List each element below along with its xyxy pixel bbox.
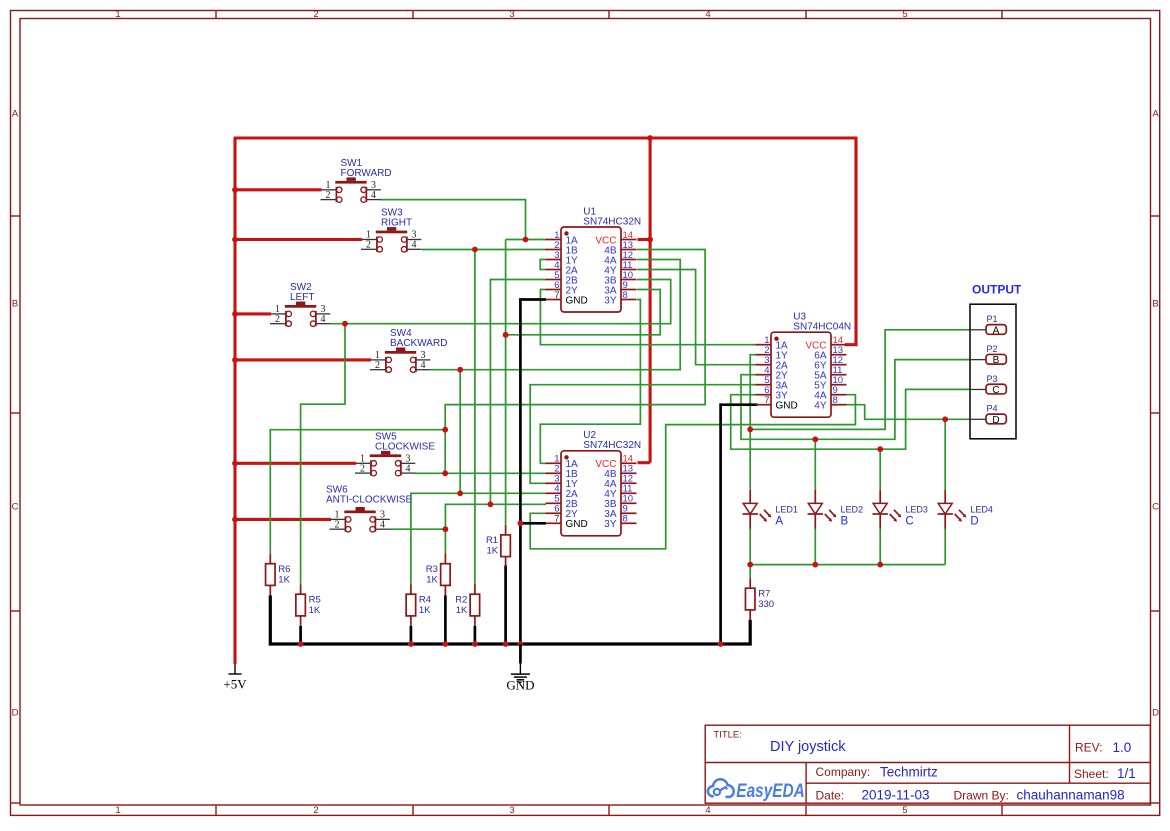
svg-text:Sheet:: Sheet: <box>1074 767 1109 781</box>
svg-text:Date:: Date: <box>816 788 845 802</box>
svg-text:chauhannaman98: chauhannaman98 <box>1017 788 1125 803</box>
resistor R6 1K <box>266 554 291 596</box>
svg-text:4: 4 <box>380 519 385 530</box>
svg-text:OUTPUT: OUTPUT <box>972 283 1022 297</box>
wire net SW1 vertical to R1 and 3A <box>505 240 507 525</box>
svg-text:7: 7 <box>554 514 559 525</box>
connector box <box>970 304 1016 439</box>
svg-text:REV:: REV: <box>1075 741 1103 755</box>
wire SW3 net down to R2 <box>474 250 476 585</box>
EasyEDA logo <box>708 779 805 802</box>
svg-text:Drawn By:: Drawn By: <box>954 788 1009 802</box>
svg-text:R1: R1 <box>486 535 498 546</box>
svg-text:LED1: LED1 <box>775 504 798 514</box>
svg-text:P1: P1 <box>987 314 998 324</box>
svg-text:8: 8 <box>623 290 628 301</box>
connector pin P2 B <box>970 344 1006 366</box>
svg-text:1: 1 <box>115 9 120 20</box>
wire R3 bottom <box>444 595 447 644</box>
wire U2 GND stub <box>520 522 546 525</box>
switch SW4 BACKWARD <box>370 328 447 372</box>
svg-text:D: D <box>1152 708 1159 719</box>
svg-text:2: 2 <box>366 240 371 251</box>
svg-text:2: 2 <box>313 805 318 816</box>
resistor R2 1K <box>455 584 479 626</box>
svg-text:A: A <box>1152 109 1159 120</box>
svg-text:1K: 1K <box>426 575 438 586</box>
wire +5V to SW3 pin1 <box>235 238 362 241</box>
svg-text:1K: 1K <box>456 605 468 616</box>
wire SW5 output to U2 pin2 <box>415 472 546 474</box>
wire net A : U3 1Y to LED1 and P1 <box>750 355 757 490</box>
svg-text:B: B <box>993 355 1000 366</box>
wire U1 3A pickup <box>506 290 661 335</box>
svg-text:C: C <box>12 502 19 513</box>
wire +5V vertical rail <box>233 138 236 664</box>
wire net B : U3 2Y to LED2 and P2 <box>741 360 970 440</box>
resistor R5 1K <box>296 584 321 626</box>
svg-text:CLOCKWISE: CLOCKWISE <box>375 441 435 452</box>
wire U1 4B to SW5 net <box>445 250 705 474</box>
svg-text:A: A <box>993 325 1000 336</box>
wire +5V to SW5 pin1 <box>235 462 356 465</box>
switch SW6 ANTI-CLOCKWISE <box>326 484 412 532</box>
svg-text:LED4: LED4 <box>970 504 993 514</box>
svg-text:P4: P4 <box>987 404 998 414</box>
svg-text:8: 8 <box>623 514 628 525</box>
svg-text:2: 2 <box>313 9 318 20</box>
svg-text:FORWARD: FORWARD <box>341 168 392 179</box>
svg-text:+5V: +5V <box>223 676 247 691</box>
svg-text:Company:: Company: <box>816 765 871 779</box>
wire SW1 output to U1 pin line <box>380 200 525 240</box>
IC U1 SN74HC32N <box>546 206 642 312</box>
svg-text:R7: R7 <box>758 589 770 600</box>
wire SW6 output <box>390 528 446 530</box>
svg-text:4: 4 <box>412 240 417 251</box>
svg-text:1K: 1K <box>278 575 290 586</box>
connector pin P4 D <box>970 404 1006 426</box>
wire net D : U3 4Y to LED4 and P4 <box>846 405 970 420</box>
svg-text:4: 4 <box>705 9 710 20</box>
svg-text:BACKWARD: BACKWARD <box>390 338 447 349</box>
svg-text:GND: GND <box>566 519 588 530</box>
svg-text:R6: R6 <box>278 564 290 575</box>
svg-text:4: 4 <box>421 360 426 371</box>
wire VCC top horizontal <box>234 136 856 139</box>
svg-text:1K: 1K <box>309 605 321 616</box>
wire +5V to SW1 pin1 <box>235 188 322 191</box>
connector pin P3 C <box>970 374 1006 396</box>
svg-text:B: B <box>841 515 849 527</box>
svg-text:A: A <box>12 109 19 120</box>
svg-text:SN74HC32N: SN74HC32N <box>583 216 641 227</box>
svg-text:LED2: LED2 <box>841 504 864 514</box>
svg-text:D: D <box>970 515 978 527</box>
svg-text:B: B <box>12 299 18 310</box>
svg-text:GND: GND <box>566 295 588 306</box>
resistor R3 1K <box>426 554 450 596</box>
wire SW6 net to U2 pin5 and R3 <box>445 504 546 554</box>
svg-text:C: C <box>1152 502 1159 513</box>
LED LED3 C <box>873 490 928 529</box>
svg-text:4: 4 <box>321 314 326 325</box>
svg-text:A: A <box>775 515 783 527</box>
resistor R1 1K <box>486 525 510 567</box>
svg-text:2: 2 <box>375 360 380 371</box>
svg-text:ANTI-CLOCKWISE: ANTI-CLOCKWISE <box>326 494 412 505</box>
svg-text:SN74HC04N: SN74HC04N <box>793 322 851 333</box>
svg-text:4: 4 <box>371 190 376 201</box>
svg-text:DIY joystick: DIY joystick <box>770 739 846 755</box>
svg-text:R5: R5 <box>309 595 321 606</box>
svg-text:EasyEDA: EasyEDA <box>736 780 805 802</box>
wire R6 up to net <box>270 430 445 554</box>
svg-text:GND: GND <box>776 401 798 412</box>
svg-text:1: 1 <box>115 805 120 816</box>
IC U2 SN74HC32N <box>546 430 642 536</box>
LED LED4 D <box>938 490 993 529</box>
wire GND bus <box>270 595 750 644</box>
svg-text:2019-11-03: 2019-11-03 <box>862 788 930 803</box>
GND ground symbol <box>506 644 534 693</box>
svg-text:7: 7 <box>554 290 559 301</box>
wire R1 bottom <box>504 565 507 644</box>
svg-text:3: 3 <box>509 805 514 816</box>
svg-text:C: C <box>905 515 913 527</box>
svg-text:P3: P3 <box>987 374 998 384</box>
svg-text:4: 4 <box>406 463 411 474</box>
wire U1 4Y to U3 2A <box>637 270 758 365</box>
switch SW3 RIGHT <box>361 208 421 252</box>
svg-text:B: B <box>1152 299 1158 310</box>
wire U2 1Y to U3 3A <box>530 385 757 484</box>
LED LED1 A <box>743 490 798 529</box>
svg-text:2: 2 <box>360 463 365 474</box>
wire +5V to SW6 pin1 <box>235 518 331 521</box>
svg-text:RIGHT: RIGHT <box>381 218 412 229</box>
svg-text:R2: R2 <box>455 595 467 606</box>
svg-text:TITLE:: TITLE: <box>713 730 742 741</box>
svg-text:3: 3 <box>509 9 514 20</box>
resistor R4 1K <box>406 584 431 626</box>
wire U1 1Y-2A loop <box>540 260 546 270</box>
svg-text:R3: R3 <box>426 564 438 575</box>
wire +5V to SW2 pin1 <box>235 312 271 315</box>
switch SW1 FORWARD <box>321 158 392 202</box>
wire SW3 output to U1 pin2 <box>422 249 547 251</box>
svg-text:SN74HC32N: SN74HC32N <box>583 440 641 451</box>
svg-text:3Y: 3Y <box>604 295 617 306</box>
wire +5V to SW4 pin1 <box>235 358 371 361</box>
wire VCC branch U2 pin14 <box>638 461 651 464</box>
wire VCC vertical to U1/U2 pin14 <box>649 137 652 463</box>
junction dots <box>232 187 238 193</box>
wire U1 2Y to U3 pin1 <box>540 290 757 345</box>
wire R4 bottom <box>410 626 413 644</box>
wire VCC branch U1 pin14 <box>638 238 651 241</box>
wire net C : U3 3Y to LED3 and P3 <box>731 389 970 449</box>
wire SW2 net to R5 <box>301 324 345 585</box>
wire SW4 drop to U2 2A line <box>459 370 461 494</box>
svg-text:P2: P2 <box>987 344 998 354</box>
svg-text:LED3: LED3 <box>905 504 928 514</box>
svg-text:2: 2 <box>326 190 331 201</box>
svg-text:4: 4 <box>705 805 710 816</box>
svg-text:D: D <box>992 415 999 426</box>
svg-text:1K: 1K <box>419 605 431 616</box>
LED LED2 B <box>808 490 863 529</box>
switch SW5 CLOCKWISE <box>355 431 435 475</box>
svg-text:7: 7 <box>764 395 769 406</box>
svg-text:5: 5 <box>902 805 907 816</box>
svg-text:R4: R4 <box>419 595 431 606</box>
svg-text:5: 5 <box>902 9 907 20</box>
svg-text:GND: GND <box>506 678 534 693</box>
+5V power symbol <box>223 664 247 691</box>
wire SW2 output to U1 3B <box>330 280 670 324</box>
switch SW2 LEFT <box>270 282 330 326</box>
wire R5 bottom <box>299 626 302 644</box>
wire U2 2Y to U3 4A <box>530 395 855 549</box>
svg-text:1/1: 1/1 <box>1117 766 1136 781</box>
svg-text:1K: 1K <box>486 546 498 557</box>
IC U3 SN74HC04N <box>756 312 852 418</box>
svg-text:2: 2 <box>275 314 280 325</box>
svg-text:1.0: 1.0 <box>1113 740 1132 755</box>
wire R4 up and U2 pin4 <box>411 493 546 584</box>
wire R2 bottom <box>474 626 477 644</box>
svg-text:2: 2 <box>335 519 340 530</box>
wire SW4 output to U1 4A <box>430 260 680 370</box>
wire LED cathode bus <box>750 564 945 566</box>
wire LED cathode drops <box>749 529 751 565</box>
resistor R7 330 <box>745 578 774 620</box>
wire U1 GND down <box>520 300 546 645</box>
svg-text:330: 330 <box>758 599 774 610</box>
svg-text:C: C <box>992 385 999 396</box>
svg-text:4Y: 4Y <box>814 401 827 412</box>
svg-text:LEFT: LEFT <box>290 292 314 303</box>
connector pin P1 A <box>970 314 1006 336</box>
wire U1 pin1 1A horizontal <box>506 239 546 241</box>
svg-text:8: 8 <box>833 395 838 406</box>
wire U3 GND down <box>721 405 758 644</box>
wire bus to R7 <box>749 565 751 579</box>
wire VCC drop to U3 pin14 <box>845 137 856 345</box>
title block <box>705 725 1150 803</box>
wire U1 3Y to U2 pin1 <box>540 300 640 464</box>
wire U1 2B drop <box>490 280 546 505</box>
svg-text:3Y: 3Y <box>604 519 617 530</box>
svg-text:D: D <box>12 708 19 719</box>
svg-text:Techmirtz: Techmirtz <box>880 764 938 779</box>
